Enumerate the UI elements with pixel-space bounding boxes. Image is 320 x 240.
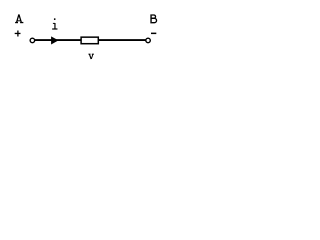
polarity "-" at node B xyxy=(151,32,156,34)
element box xyxy=(81,37,98,44)
terminal A (open circle) xyxy=(30,38,35,43)
label "v" xyxy=(88,54,94,59)
node A label "A" xyxy=(15,14,23,22)
wire (terminal A to element box) xyxy=(35,39,82,41)
wire (element box to terminal B) xyxy=(99,39,146,41)
polarity "+" at node A xyxy=(15,31,21,37)
node B label "B" xyxy=(151,14,157,23)
label "i" xyxy=(52,18,57,29)
terminal B (open circle) xyxy=(146,38,151,43)
current arrow xyxy=(51,36,58,44)
